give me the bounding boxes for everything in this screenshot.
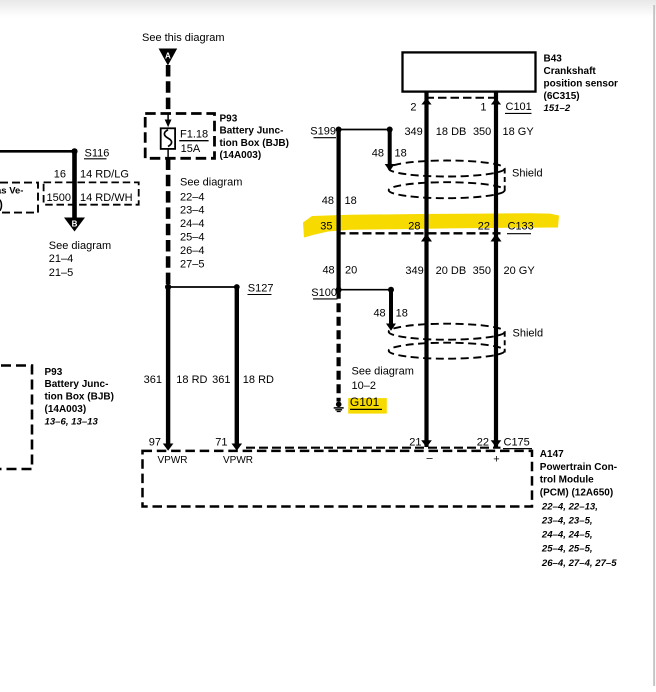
off-page connector B — [64, 218, 85, 232]
svg-text:350: 350 — [473, 265, 491, 277]
arrow at C175 on pin 22 wire — [491, 440, 502, 447]
svg-text:1: 1 — [480, 102, 486, 114]
svg-text:349: 349 — [404, 126, 422, 138]
svg-text:20 DB: 20 DB — [436, 265, 467, 277]
label G101 — [350, 395, 382, 409]
svg-text:35: 35 — [320, 221, 332, 233]
svg-text:25–4: 25–4 — [180, 232, 204, 244]
connector label C133 — [507, 221, 534, 234]
fuse F1.18 15A — [161, 114, 175, 159]
svg-text:–: – — [426, 453, 433, 465]
svg-text:B43: B43 — [544, 53, 563, 64]
svg-text:Battery Junc-: Battery Junc- — [45, 379, 109, 390]
svg-text:as Ve-: as Ve- — [0, 186, 23, 197]
svg-text:S199: S199 — [310, 126, 336, 138]
svg-text:tion Box (BJB): tion Box (BJB) — [220, 138, 289, 149]
svg-text:21: 21 — [409, 436, 421, 448]
svg-text:22–4: 22–4 — [180, 191, 204, 203]
svg-text:23–4: 23–4 — [180, 205, 204, 217]
component box P93 Battery Junction Box (dashed) — [145, 114, 214, 159]
svg-text:Shield: Shield — [513, 328, 544, 340]
svg-text:C133: C133 — [508, 221, 534, 233]
svg-text:C101: C101 — [506, 101, 532, 113]
arrow at C175 on pin 21 wire — [421, 440, 432, 447]
svg-text:15A: 15A — [181, 143, 201, 155]
svg-text:position sensor: position sensor — [544, 79, 619, 90]
svg-text:18: 18 — [395, 148, 407, 160]
wire: shield drain branch from S199 — [385, 130, 395, 172]
svg-text:26–4, 27–4, 27–5: 26–4, 27–4, 27–5 — [541, 558, 617, 569]
svg-text:16: 16 — [54, 168, 66, 180]
svg-text:22–4, 22–13,: 22–4, 22–13, — [541, 501, 598, 512]
svg-text:48: 48 — [322, 265, 334, 277]
circuit label 361 18 RD (left) — [144, 374, 208, 386]
wire: VPWR run BJB to PCM pin 97 — [163, 287, 174, 451]
svg-text:151–2: 151–2 — [544, 103, 571, 114]
note See diagram 22-4 ... 27-5 — [180, 177, 242, 271]
svg-text:P93: P93 — [45, 367, 63, 378]
connector label C101 — [505, 101, 532, 113]
svg-text:2: 2 — [410, 102, 416, 114]
arrow at C133 on pin 28 wire — [421, 234, 432, 242]
svg-text:22: 22 — [478, 221, 490, 233]
svg-text:27–5: 27–5 — [180, 258, 204, 270]
component box A147 PCM (dashed) — [143, 451, 533, 507]
component box B43 crankshaft position sensor — [403, 52, 536, 91]
svg-text:tion Box (BJB): tion Box (BJB) — [45, 392, 114, 403]
option box text fragment — [0, 186, 23, 212]
arrow at C101 on pin 1 wire — [491, 98, 501, 105]
ground G101 symbol — [334, 402, 344, 412]
svg-text:1500: 1500 — [47, 192, 71, 204]
callout A147 Powertrain Control Module — [540, 449, 617, 569]
svg-text:See diagram: See diagram — [352, 365, 414, 377]
svg-text:97: 97 — [149, 436, 161, 448]
svg-text:VPWR: VPWR — [158, 455, 188, 466]
node S116 splice — [71, 147, 109, 159]
circuit label 349 18 DB — [404, 126, 466, 138]
svg-text:Crankshaft: Crankshaft — [544, 66, 597, 77]
svg-text:trol Module: trol Module — [540, 475, 594, 486]
highlight band over C133 row — [303, 213, 559, 237]
wire: VPWR run S127 to PCM pin 71 — [232, 287, 243, 451]
wire: dashed feed from A to BJB — [166, 65, 171, 113]
svg-text:See diagram: See diagram — [49, 240, 111, 252]
svg-text:VPWR: VPWR — [223, 455, 253, 466]
callout P93 Battery Junction Box (14A003) — [220, 113, 289, 161]
wire: W1 S199 down to S100 — [337, 130, 341, 290]
circuit label 361 18 RD (right) — [212, 374, 274, 386]
svg-text:18 RD: 18 RD — [243, 374, 274, 386]
note See diagram 10-2 — [352, 365, 414, 392]
svg-text:349: 349 — [405, 265, 423, 277]
svg-text:361: 361 — [144, 374, 162, 386]
svg-text:See diagram: See diagram — [180, 177, 242, 189]
svg-text:18 DB: 18 DB — [436, 126, 467, 138]
note See diagram 21-4 / 21-5 — [49, 240, 111, 279]
off-page connector A — [159, 49, 178, 66]
wire: dashed from BJB down to S127 — [166, 159, 171, 286]
circuit label 349 20 DB — [405, 265, 466, 277]
svg-text:F1.18: F1.18 — [180, 128, 208, 140]
svg-text:(14A003): (14A003) — [220, 150, 262, 161]
svg-text:C175: C175 — [504, 437, 530, 449]
dashed box 1500 / 14 RD/WH — [44, 182, 139, 204]
shield (lower) dashed ellipses — [389, 324, 505, 359]
fuse value label F1.18 / 15A — [179, 128, 208, 155]
svg-text:21–5: 21–5 — [49, 267, 73, 279]
svg-text:(PCM) (12A650): (PCM) (12A650) — [540, 487, 613, 498]
connector C175 dashed line — [246, 447, 501, 449]
svg-text:48: 48 — [322, 195, 334, 207]
wire: horizontal feed into S116 — [0, 150, 75, 153]
dashed box P93 BJB (bottom left, cut off) — [0, 366, 32, 470]
shield (upper) dashed ellipses — [389, 161, 505, 199]
svg-text:(6C315): (6C315) — [544, 91, 580, 102]
svg-text:+: + — [493, 454, 499, 466]
svg-text:18: 18 — [396, 308, 408, 320]
wire: sensor pin 1 down to PCM pin 22 — [494, 91, 498, 447]
svg-text:18 GY: 18 GY — [503, 126, 535, 138]
node S199 splice — [310, 126, 392, 138]
circuit label 48 / 18 (upper drain) — [372, 148, 407, 160]
svg-text:Battery Junc-: Battery Junc- — [220, 126, 284, 137]
svg-text:Shield: Shield — [512, 168, 543, 180]
svg-text:20 GY: 20 GY — [504, 265, 536, 277]
svg-text:350: 350 — [473, 126, 491, 138]
svg-text:28: 28 — [408, 221, 420, 233]
wire: W1 dashed ground run S100 to G101 — [337, 290, 341, 402]
node S100 splice — [311, 287, 394, 299]
svg-text:26–4: 26–4 — [180, 245, 204, 257]
svg-text:18: 18 — [345, 195, 357, 207]
arrow at C133 on pin 22 wire — [491, 234, 502, 242]
svg-text:14 RD/WH: 14 RD/WH — [80, 192, 133, 204]
svg-text:18 RD: 18 RD — [176, 374, 207, 386]
svg-text:48: 48 — [373, 308, 385, 320]
svg-text:P93: P93 — [220, 113, 238, 124]
svg-text:S100: S100 — [311, 287, 337, 299]
svg-text:21–4: 21–4 — [49, 253, 73, 265]
svg-text:A147: A147 — [540, 449, 564, 460]
svg-text:A: A — [165, 52, 171, 61]
svg-text:14 RD/LG: 14 RD/LG — [80, 168, 129, 180]
node S127 splice — [165, 283, 274, 295]
svg-text:48: 48 — [372, 148, 384, 160]
svg-text:): ) — [0, 199, 3, 211]
svg-text:See this diagram: See this diagram — [142, 32, 225, 44]
circuit label 48 / 18 (left wire upper) — [322, 195, 357, 207]
circuit label 1500 / 14 RD/WH — [47, 192, 133, 204]
wire: S116 down to connector B — [72, 151, 77, 218]
svg-text:25–4, 25–5,: 25–4, 25–5, — [541, 544, 593, 555]
wire: shield drain branch from S100 — [386, 290, 396, 331]
svg-text:24–4, 24–5,: 24–4, 24–5, — [541, 530, 593, 541]
connector label C175 — [503, 437, 532, 449]
circuit label 48 / 20 — [322, 265, 357, 277]
svg-text:(14A003): (14A003) — [45, 404, 87, 415]
svg-text:22: 22 — [477, 436, 489, 448]
svg-text:S116: S116 — [85, 147, 110, 159]
connector C133 dashed line — [337, 232, 501, 234]
svg-text:Powertrain Con-: Powertrain Con- — [540, 462, 617, 473]
circuit label 350 18 GY — [473, 126, 534, 138]
svg-text:20: 20 — [345, 265, 357, 277]
callout P93 Battery Junction Box (bottom left) — [45, 367, 114, 428]
svg-text:71: 71 — [215, 436, 227, 448]
dashed option box (cut off at left edge) — [0, 183, 38, 213]
svg-text:10–2: 10–2 — [352, 380, 376, 392]
circuit label 16 / 14 RD/LG — [54, 168, 129, 180]
arrow at C101 on pin 2 wire — [421, 98, 431, 105]
connector C101 dashed line — [426, 97, 499, 99]
svg-text:G101: G101 — [350, 395, 380, 409]
callout B43 Crankshaft position sensor — [544, 53, 619, 114]
highlight box over G101 — [348, 398, 387, 414]
svg-text:23–4, 23–5,: 23–4, 23–5, — [541, 516, 593, 527]
svg-text:S127: S127 — [248, 283, 274, 295]
svg-text:361: 361 — [212, 374, 230, 386]
svg-text:13–6, 13–13: 13–6, 13–13 — [45, 416, 99, 427]
circuit label 350 20 GY — [473, 265, 536, 277]
wire: sensor pin 2 down to PCM pin 21 — [424, 91, 428, 447]
circuit label 48 / 18 (lower drain) — [373, 308, 407, 320]
svg-text:24–4: 24–4 — [180, 218, 204, 230]
svg-text:B: B — [72, 220, 78, 229]
